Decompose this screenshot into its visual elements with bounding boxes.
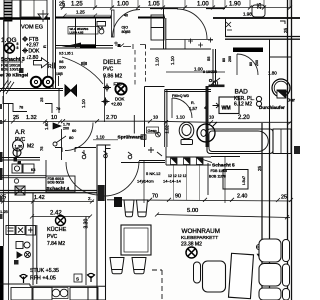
A.R door arc <box>62 57 103 84</box>
schacht5 duct box <box>223 170 248 190</box>
svg-text:70: 70 <box>152 194 158 200</box>
top wall right segment <box>138 17 165 19</box>
corner mark <box>280 21 285 24</box>
bathtub <box>207 129 273 154</box>
svg-text:Durchlaufer: Durchlaufer <box>259 105 285 110</box>
svg-text:BAD: BAD <box>235 89 249 96</box>
svg-text:S: S <box>76 277 79 282</box>
corridor west wall <box>53 0 56 89</box>
dim line kueche <box>0 200 94 204</box>
partition dim line <box>93 139 118 141</box>
svg-text:1.25: 1.25 <box>76 10 85 15</box>
top dimension extension ticks <box>63 0 290 8</box>
svg-text:60: 60 <box>72 129 76 133</box>
svg-text:WALKDURCHB.: WALKDURCHB. <box>235 48 257 52</box>
svg-text:8: 8 <box>17 46 19 50</box>
svg-text:80: 80 <box>249 62 253 66</box>
svg-text:9.86 M2: 9.86 M2 <box>103 74 122 80</box>
svg-text:LUKA 4.85: LUKA 4.85 <box>70 30 84 34</box>
stair hatched block top-left <box>4 0 20 21</box>
svg-text:R: R <box>48 64 52 70</box>
wall under A.R <box>0 158 40 161</box>
right border lines <box>288 0 292 300</box>
small dark mark right margin <box>294 146 300 154</box>
svg-text:1.90: 1.90 <box>229 2 241 8</box>
svg-text:1.25: 1.25 <box>0 209 9 214</box>
couch seat 3 <box>259 288 281 300</box>
wall band schacht5 <box>166 147 211 165</box>
spec box WLG <box>68 27 98 35</box>
entry cupboard boxes <box>151 15 164 28</box>
svg-text:2.40: 2.40 <box>237 194 247 200</box>
lamp symbol circle-X <box>5 43 15 53</box>
water heater black square <box>277 90 286 98</box>
door hinge circle A.R <box>53 142 57 146</box>
right verticals wall wohnraum <box>262 123 270 300</box>
bad door arc top <box>237 54 258 75</box>
kueche lamp <box>56 216 66 226</box>
window rounded rect <box>252 5 265 17</box>
svg-text:K3: K3 <box>31 168 35 172</box>
washer room boxes left <box>0 160 46 192</box>
corridor walls right of diele <box>150 9 216 87</box>
svg-text:M2: M2 <box>27 144 34 150</box>
bad east wall <box>269 39 271 129</box>
short vertical below dash <box>133 115 135 134</box>
kitchen counter walls <box>0 284 105 286</box>
kueche east inner line <box>85 217 87 286</box>
label Gege box <box>147 127 159 133</box>
hinge symbols <box>82 150 132 159</box>
svg-text:Sprühwand: Sprühwand <box>118 135 144 141</box>
svg-text:0.5 1.35 1: 0.5 1.35 1 <box>59 52 73 56</box>
spotlight symbol right <box>87 273 95 282</box>
left black bar <box>0 246 4 300</box>
water heater circle <box>272 79 290 97</box>
svg-text:I-5u7: I-5u7 <box>241 175 246 185</box>
vestibule fixture W <box>97 22 106 34</box>
svg-text:KÜCHE: KÜCHE <box>47 226 67 233</box>
svg-text:5 NK.12: 5 NK.12 <box>146 171 161 176</box>
kueche west wall <box>33 193 37 286</box>
wohnraum lamp <box>186 247 197 258</box>
svg-text:Schacht 5: Schacht 5 <box>212 163 235 169</box>
wall band under rings <box>0 89 63 91</box>
F circle <box>14 179 18 183</box>
dim line small <box>166 71 225 73</box>
door pennant A.R <box>53 123 61 129</box>
svg-text:78: 78 <box>19 106 23 110</box>
DIELE south thick wall with radiator <box>55 46 113 49</box>
bad west vertical wall upper <box>225 18 227 36</box>
DOK symbol diele <box>102 98 110 106</box>
dim 4.70 rotated <box>256 244 261 254</box>
toilet <box>179 122 194 144</box>
svg-text:40: 40 <box>124 14 128 18</box>
dim line 5.00 <box>155 213 290 220</box>
svg-text:STUK +5.35: STUK +5.35 <box>30 268 59 274</box>
top right wall segment <box>213 17 300 19</box>
section marker triangle <box>38 14 48 20</box>
stair landing boxes <box>21 0 47 17</box>
small arrows left <box>226 22 232 30</box>
DIELE north wall thick <box>55 17 112 19</box>
couch arm 2 <box>283 264 290 286</box>
niche top line <box>270 56 293 58</box>
small crossed circle <box>156 132 161 137</box>
dashed line corridor <box>145 45 147 84</box>
hinge glyphs over wall <box>114 42 146 50</box>
svg-text:80|85: 80|85 <box>122 30 131 34</box>
svg-text:1.00: 1.00 <box>117 2 129 8</box>
svg-text:1.10: 1.10 <box>155 57 160 66</box>
svg-text:200: 200 <box>59 65 66 70</box>
DOK cross symbol <box>22 48 28 54</box>
vestibule left wall <box>76 18 96 49</box>
svg-text:80: 80 <box>69 135 74 140</box>
radiator pill <box>194 262 201 283</box>
black wedge <box>62 43 82 48</box>
couch seat 2 <box>259 264 281 287</box>
schacht4 box <box>46 176 75 192</box>
pillar hatch dark <box>98 185 105 201</box>
svg-text:1.60: 1.60 <box>44 121 49 130</box>
tilted table <box>228 253 253 298</box>
svg-text:10: 10 <box>209 115 215 120</box>
ceiling lamp bold circle-X <box>115 83 126 94</box>
ceiling symbol kitchen annex <box>13 149 21 157</box>
svg-text:1.10: 1.10 <box>170 56 175 65</box>
svg-text:R: R <box>42 45 47 48</box>
chairs bottom proper <box>110 258 146 274</box>
svg-text:14)/14cm: 14)/14cm <box>137 179 154 184</box>
svg-text:WOHNRAUM: WOHNRAUM <box>182 228 220 235</box>
stair left verticals <box>4 18 21 88</box>
half-black squares row <box>171 158 204 165</box>
entrance door arc <box>177 9 207 39</box>
svg-text:25: 25 <box>257 165 262 171</box>
hinge pivot bad door <box>208 78 220 87</box>
radiator black <box>80 44 96 48</box>
black label box <box>233 48 263 53</box>
svg-text:RFH +4.05: RFH +4.05 <box>30 276 56 282</box>
svg-text:DOK: DOK <box>29 49 41 55</box>
S box <box>74 274 82 282</box>
diagonal slashes <box>0 80 14 94</box>
outlet symbols cluster <box>16 242 31 259</box>
washbasin circle <box>197 122 217 142</box>
dishwasher square with X <box>15 186 25 195</box>
wall below tub <box>211 156 240 158</box>
kueche north wall <box>0 191 97 193</box>
pipe ring left <box>31 77 41 87</box>
svg-text:3.30: 3.30 <box>84 219 90 229</box>
svg-text:1.52: 1.52 <box>165 125 170 134</box>
svg-text:VOM EG: VOM EG <box>21 25 43 31</box>
couch arm 1 <box>283 240 290 262</box>
dark squares <box>14 158 18 162</box>
kueche door arc <box>65 123 93 151</box>
closet bottom line <box>166 40 213 50</box>
entry door arc <box>113 10 141 38</box>
svg-text:14–14–14: 14–14–14 <box>163 179 182 184</box>
stair right vertical <box>47 18 49 76</box>
svg-text:BOB 60/18: BOB 60/18 <box>48 181 65 185</box>
kitchen counter units <box>11 288 98 300</box>
stair step outline <box>3 88 62 160</box>
svg-text:1.25: 1.25 <box>71 2 83 8</box>
dining table <box>121 225 151 255</box>
bowtie symbol <box>65 85 77 96</box>
vertical ext line <box>144 156 225 203</box>
drain symbol 8 <box>256 96 261 106</box>
svg-text:2.20: 2.20 <box>238 115 250 121</box>
thick wall line under stairs <box>0 17 50 19</box>
spotlight symbol left <box>20 274 28 283</box>
double door arc right <box>104 161 139 196</box>
svg-text:O|O: O|O <box>122 26 129 30</box>
svg-text:25: 25 <box>281 195 287 201</box>
dim line 2.42 <box>30 215 92 219</box>
svg-text:25: 25 <box>39 97 44 102</box>
area circle 1.36 M2 <box>13 140 24 151</box>
dining black seat <box>114 197 122 207</box>
left small boxes <box>6 226 36 236</box>
svg-text:2.70: 2.70 <box>106 115 117 121</box>
svg-text:PVC: PVC <box>103 67 114 73</box>
entry door leaf vertical <box>111 10 114 37</box>
FTB symbol diele <box>103 84 111 92</box>
svg-text:+2.80: +2.80 <box>111 101 122 106</box>
svg-text:1.42: 1.42 <box>34 195 45 201</box>
top dimension line <box>60 7 292 9</box>
svg-text:12 12 12 12: 12 12 12 12 <box>168 174 187 178</box>
svg-text:90: 90 <box>175 194 181 200</box>
svg-text:1.10: 1.10 <box>176 115 185 120</box>
couch seat 1 <box>259 239 281 262</box>
small bars beside rings <box>56 76 59 86</box>
svg-text:80: 80 <box>222 58 226 62</box>
cabinet right of tub <box>273 129 291 154</box>
svg-text:200: 200 <box>63 127 69 131</box>
svg-text:6.12 M2: 6.12 M2 <box>234 102 252 108</box>
svg-text:8 18/200: 8 18/200 <box>203 70 217 74</box>
dim line <box>0 120 63 124</box>
svg-text:F90×Q WD: F90×Q WD <box>172 94 190 98</box>
niche corner wall <box>145 87 165 148</box>
svg-text:WM: WM <box>222 106 231 112</box>
entrance outer wall line <box>150 8 225 10</box>
skew wall line <box>195 157 212 195</box>
svg-text:KLEBEPARKETT: KLEBEPARKETT <box>181 235 218 241</box>
svg-text:Gesp: Gesp <box>148 129 157 133</box>
svg-text:8|8: 8|8 <box>81 61 88 66</box>
svg-text:70: 70 <box>56 107 60 111</box>
WC inner door arc <box>172 98 192 118</box>
diamond symbol <box>34 58 49 68</box>
double door arc left <box>66 162 99 195</box>
couch arm 3 <box>283 289 290 300</box>
pipe ring right <box>43 77 53 87</box>
svg-text:5.00: 5.00 <box>187 208 198 214</box>
corridor small crosses <box>188 38 213 48</box>
svg-text:55: 55 <box>206 56 211 61</box>
FTB cross symbol <box>22 36 28 42</box>
svg-text:2.: 2. <box>88 196 92 201</box>
svg-text:1.05: 1.05 <box>148 2 160 8</box>
WC room box <box>165 86 225 147</box>
left column lines <box>4 20 9 300</box>
svg-text:25: 25 <box>257 3 263 9</box>
diele west line <box>104 76 106 122</box>
svg-text:1,57: 1,57 <box>189 106 198 111</box>
top dim slash ticks <box>61 6 292 10</box>
svg-text:1.98: 1.98 <box>243 12 252 17</box>
svg-text:75: 75 <box>39 146 44 151</box>
svg-text:10: 10 <box>51 115 57 121</box>
armchair <box>203 261 226 292</box>
schacht5 area small symbols <box>148 147 162 156</box>
bad north double wall <box>225 37 300 40</box>
svg-text:1.10: 1.10 <box>81 99 86 108</box>
svg-text:7.84 M2: 7.84 M2 <box>47 241 65 247</box>
svg-text:1.00: 1.00 <box>194 67 203 72</box>
washing machine box <box>219 97 239 114</box>
svg-text:A.R: A.R <box>15 130 26 136</box>
dining chairs top <box>124 200 148 217</box>
wall right of doors <box>121 161 165 163</box>
svg-text:DIELE: DIELE <box>103 59 121 66</box>
svg-text:25: 25 <box>59 2 65 8</box>
dashed line diele <box>134 50 136 85</box>
svg-text:18|5: 18|5 <box>56 72 63 76</box>
svg-text:1.32: 1.32 <box>26 115 37 121</box>
dashed guides <box>152 270 162 300</box>
svg-text:98: 98 <box>59 59 64 64</box>
svg-text:200: 200 <box>228 56 232 62</box>
svg-text:1.10: 1.10 <box>96 135 105 140</box>
svg-text:200: 200 <box>255 60 259 66</box>
svg-text:1,36: 1,36 <box>15 144 24 149</box>
left edge dark marks <box>0 104 2 109</box>
svg-text:10: 10 <box>153 115 159 120</box>
svg-text:1.00: 1.00 <box>197 2 209 8</box>
svg-text:R.: R. <box>191 101 195 105</box>
central pillar wall <box>97 145 111 300</box>
diele lower wall left <box>55 148 96 153</box>
mid dim line <box>61 119 292 124</box>
dim line bottom <box>107 198 293 202</box>
svg-text:PVC: PVC <box>47 234 58 240</box>
